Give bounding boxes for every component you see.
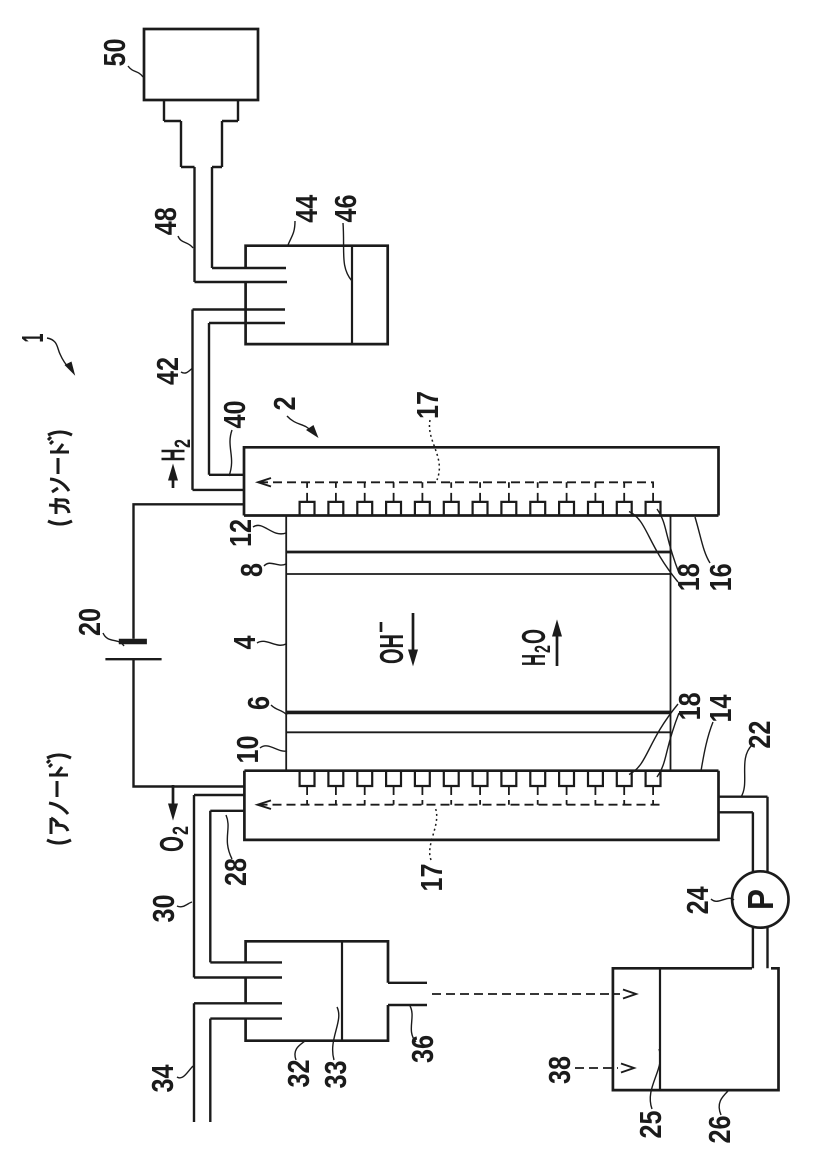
- label 20: [72, 608, 124, 646]
- drain port 36 of separator 32: [388, 983, 427, 1005]
- svg-text:6: 6: [241, 696, 276, 710]
- anode separator plate 14: [244, 771, 718, 840]
- label 48: [148, 207, 193, 248]
- label 44: [288, 194, 324, 245]
- label 28: [218, 815, 253, 886]
- svg-text:48: 48: [148, 207, 183, 235]
- svg-text:34: 34: [145, 1064, 180, 1093]
- svg-text:16: 16: [703, 563, 738, 591]
- membrane 4 / anode catalyst layer 6 boundary (thick): [286, 711, 670, 715]
- label 46 (stored water in separator 44): [328, 195, 363, 282]
- cathode gas diffusion layer 12 boundary: [286, 551, 670, 554]
- svg-text:30: 30: [146, 895, 181, 923]
- device 50 (H2 consuming device): [144, 29, 258, 167]
- svg-text:2: 2: [170, 439, 195, 448]
- label 32: [281, 1041, 316, 1088]
- label 10: [230, 736, 287, 764]
- svg-text:14: 14: [703, 694, 738, 723]
- label 4 (membrane): [227, 635, 286, 650]
- electrolysis cell 2 : cathode separator plate: [244, 447, 719, 515]
- svg-text:2: 2: [168, 826, 193, 835]
- membrane electrode stack: outline: [286, 516, 670, 771]
- cathode catalyst layer 8 boundary: [286, 573, 670, 575]
- label 2 with arrow: [267, 397, 319, 439]
- label 40 (H2 outlet port of cathode separator): [217, 401, 252, 477]
- label 17 (cathode channel, dotted leader): [410, 391, 445, 480]
- label 36: [405, 1006, 440, 1063]
- svg-text:17: 17: [414, 864, 449, 892]
- svg-text:42: 42: [150, 357, 185, 385]
- cathode label (katakana kasodo): [48, 432, 72, 524]
- svg-text:H: H: [515, 654, 552, 666]
- gas-liquid separator 32: [246, 941, 388, 1040]
- svg-text:40: 40: [217, 401, 252, 429]
- pipe 28 / 30 (anode O2 outlet line to separator 32): [194, 795, 282, 978]
- svg-text:OH: OH: [373, 634, 410, 664]
- label 8: [234, 563, 286, 577]
- H2 gas label with arrow: [155, 439, 196, 488]
- pipe 22 (anode water circulation line): [719, 797, 768, 969]
- label 50: [97, 39, 143, 78]
- svg-text:32: 32: [281, 1060, 316, 1088]
- svg-text:H: H: [155, 449, 192, 462]
- svg-text:1: 1: [15, 334, 50, 343]
- svg-text:2: 2: [530, 645, 555, 653]
- DC power source 20 (battery) and wiring: [105, 504, 244, 786]
- svg-text:O: O: [153, 836, 190, 852]
- label 33 (stored water in separator 32): [318, 1007, 353, 1089]
- label 26: [702, 1091, 737, 1144]
- H2O transport label and arrow: [515, 619, 562, 666]
- anode catalyst layer 6 / anode GDL 10 boundary: [286, 731, 670, 733]
- svg-text:2: 2: [267, 397, 302, 411]
- svg-text:26: 26: [702, 1116, 737, 1144]
- svg-text:12: 12: [223, 519, 258, 547]
- cathode plate ribs 18 (teeth): [300, 502, 661, 516]
- svg-text:36: 36: [405, 1035, 440, 1063]
- figure reference numeral 1 with arrow: [15, 334, 75, 376]
- labels 18 and 14 (anode side): [629, 692, 707, 777]
- svg-text:50: 50: [97, 39, 132, 67]
- dashed water return flow 36 into tank: [432, 990, 636, 999]
- anode plate ribs 18 (teeth): [300, 771, 661, 786]
- svg-text:22: 22: [742, 721, 777, 749]
- O2 gas label with arrow: [153, 785, 193, 852]
- label 12: [223, 519, 286, 547]
- svg-text:44: 44: [289, 194, 324, 223]
- OH- ion migration label and arrow: [373, 613, 418, 666]
- svg-text:17: 17: [410, 391, 445, 419]
- svg-text:O: O: [515, 629, 552, 644]
- label 34: [145, 1064, 193, 1093]
- label 38: [542, 1056, 577, 1084]
- svg-text:25: 25: [633, 1111, 668, 1139]
- anode water/gas flow channel 17 (dashed) with arrow: [258, 786, 663, 809]
- label 24: [680, 886, 734, 915]
- circulation pump 24: [732, 871, 788, 927]
- svg-text:P: P: [740, 889, 781, 910]
- label 25 (water level in tank): [633, 1049, 668, 1139]
- label 42: [150, 357, 192, 385]
- label 17 (anode channel, dotted leader): [414, 807, 449, 892]
- pipe 48 (H2 line from separator 44 to device 50): [195, 167, 288, 282]
- labels 18 and 16 (cathode side): [629, 509, 706, 591]
- gas-liquid separator 44: [246, 246, 388, 344]
- svg-text:8: 8: [234, 563, 269, 577]
- dashed water supply flow 38 into tank: [575, 1064, 634, 1073]
- pipe 34 (O2 vent line): [194, 1003, 282, 1122]
- svg-text:38: 38: [542, 1056, 577, 1084]
- svg-text:4: 4: [227, 635, 262, 650]
- svg-text:46: 46: [328, 195, 363, 223]
- svg-text:10: 10: [230, 736, 265, 764]
- svg-text:20: 20: [72, 608, 107, 636]
- pipe 42 (cathode outlet line to separator 44): [193, 310, 286, 490]
- label 22: [741, 721, 777, 797]
- svg-text:33: 33: [318, 1061, 353, 1089]
- label 30: [146, 895, 192, 923]
- svg-text:28: 28: [218, 858, 253, 886]
- svg-text:24: 24: [680, 886, 715, 915]
- water tank 26: [613, 968, 779, 1090]
- anode label (katakana anodo): [47, 755, 71, 843]
- label 6: [241, 696, 287, 715]
- cathode gas flow channel 17 (dashed) with arrow: [258, 478, 654, 502]
